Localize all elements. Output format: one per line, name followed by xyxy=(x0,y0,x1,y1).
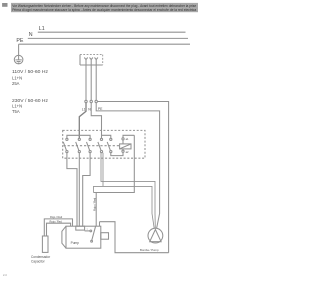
plug contact N xyxy=(90,58,93,66)
label L1 xyxy=(39,26,45,32)
motor shaft xyxy=(101,233,109,240)
wire plug N down xyxy=(90,65,92,100)
earth electrode symbol xyxy=(14,55,23,64)
svg-text:a2: a2 xyxy=(126,150,129,154)
terminal L1 xyxy=(85,100,87,102)
svg-text:Pump: Pump xyxy=(71,241,80,245)
switch linkage (dashed) xyxy=(64,145,120,147)
motor centrifugal switch xyxy=(85,226,96,242)
svg-text:L1+N: L1+N xyxy=(12,75,22,80)
svg-text:110V / 50-60 Hz: 110V / 50-60 Hz xyxy=(12,69,48,74)
wire capacitor 2 xyxy=(47,223,71,236)
label terminal L1 xyxy=(82,107,86,111)
wire a2 link to pole 5 xyxy=(111,152,123,155)
svg-text:L1: L1 xyxy=(82,107,86,111)
wire lamp feed xyxy=(123,135,134,138)
label N xyxy=(29,32,33,38)
wire plug L1 down xyxy=(85,65,87,100)
lamp H1 xyxy=(120,140,131,150)
svg-text:25A: 25A xyxy=(12,81,20,86)
label terminal N xyxy=(88,107,91,111)
wire pole3 to motor xyxy=(83,153,90,227)
svg-text:PE: PE xyxy=(16,38,24,44)
svg-text:a1: a1 xyxy=(126,137,129,141)
plug contact L1 xyxy=(84,58,87,66)
wire N to switch xyxy=(91,103,101,136)
plug contact PE xyxy=(95,58,98,66)
header note bar xyxy=(11,3,198,12)
header logo square xyxy=(2,3,7,7)
wire enclosure earth link xyxy=(100,222,169,253)
switch pole 5 xyxy=(107,138,112,152)
wire bus L1 xyxy=(38,31,186,33)
note 230V supply xyxy=(12,98,48,114)
label a2 xyxy=(126,150,129,154)
footer mark xyxy=(3,273,7,277)
svg-text:Rojo / Red: Rojo / Red xyxy=(92,197,96,211)
wire bus PE xyxy=(19,43,190,45)
wire earth into motor xyxy=(99,222,101,227)
wire plug PE down xyxy=(95,65,97,100)
capacitor C1 xyxy=(42,236,48,252)
svg-text:230V / 50-60 Hz: 230V / 50-60 Hz xyxy=(12,98,48,103)
label a1 xyxy=(126,137,129,141)
wire pole2 to motor xyxy=(78,153,80,227)
svg-text:Bomba / Pump: Bomba / Pump xyxy=(140,248,159,252)
pump P1 xyxy=(148,228,163,243)
switch pole 4 xyxy=(98,138,103,152)
wire merged feed to motor switch xyxy=(95,193,97,227)
switch jumper A xyxy=(67,135,90,138)
wire PE branch to pump N xyxy=(96,103,159,229)
svg-text:T5A: T5A xyxy=(12,109,20,114)
svg-text:Prima di ogni manutenzione sta: Prima di ogni manutenzione staccare la s… xyxy=(12,8,197,12)
switch jumper B xyxy=(102,135,111,138)
terminal N xyxy=(90,100,92,102)
wire L1 to switch xyxy=(79,103,86,139)
svg-text:2-3: 2-3 xyxy=(3,273,7,277)
wire lamp bypass xyxy=(94,135,135,192)
switch S1 enclosure (dashed) xyxy=(63,130,145,158)
label terminal PE xyxy=(98,107,103,111)
wire pole4 branch to motor switch and pump xyxy=(94,153,155,229)
label wire Rojo/Red 1 xyxy=(50,215,63,219)
wire PE drop to earth xyxy=(18,44,20,55)
note 110V supply xyxy=(12,69,48,86)
svg-text:L1: L1 xyxy=(39,26,45,32)
switch pole 3 xyxy=(87,138,92,152)
lamp terminal a2 xyxy=(122,150,124,152)
svg-text:Capacitor: Capacitor xyxy=(31,259,46,263)
motor M1 (pump motor) body xyxy=(62,226,101,248)
label Pump xyxy=(71,241,80,245)
label Condensador / Capacitor xyxy=(31,255,51,263)
wire pole4 to pump xyxy=(101,153,155,229)
svg-text:N: N xyxy=(29,32,33,38)
switch pole 2 xyxy=(76,138,81,152)
lamp terminal a1 xyxy=(122,138,124,140)
label Bomba / Pump xyxy=(140,248,159,252)
label wire Rojo/Red 2 xyxy=(50,220,63,224)
label PE xyxy=(16,38,24,44)
plug X1 (mains socket, dashed) xyxy=(80,55,103,65)
label wire colour (vertical) xyxy=(92,197,96,211)
wire capacitor 1 xyxy=(44,219,72,236)
svg-text:c: c xyxy=(87,228,89,230)
wire bus N xyxy=(28,37,188,39)
motor terminal block xyxy=(76,226,85,230)
terminal PE xyxy=(95,100,97,102)
wire pole1 to motor xyxy=(67,153,77,227)
switch pole 1 xyxy=(63,138,68,152)
wire PE to enclosure (right) xyxy=(97,102,168,253)
